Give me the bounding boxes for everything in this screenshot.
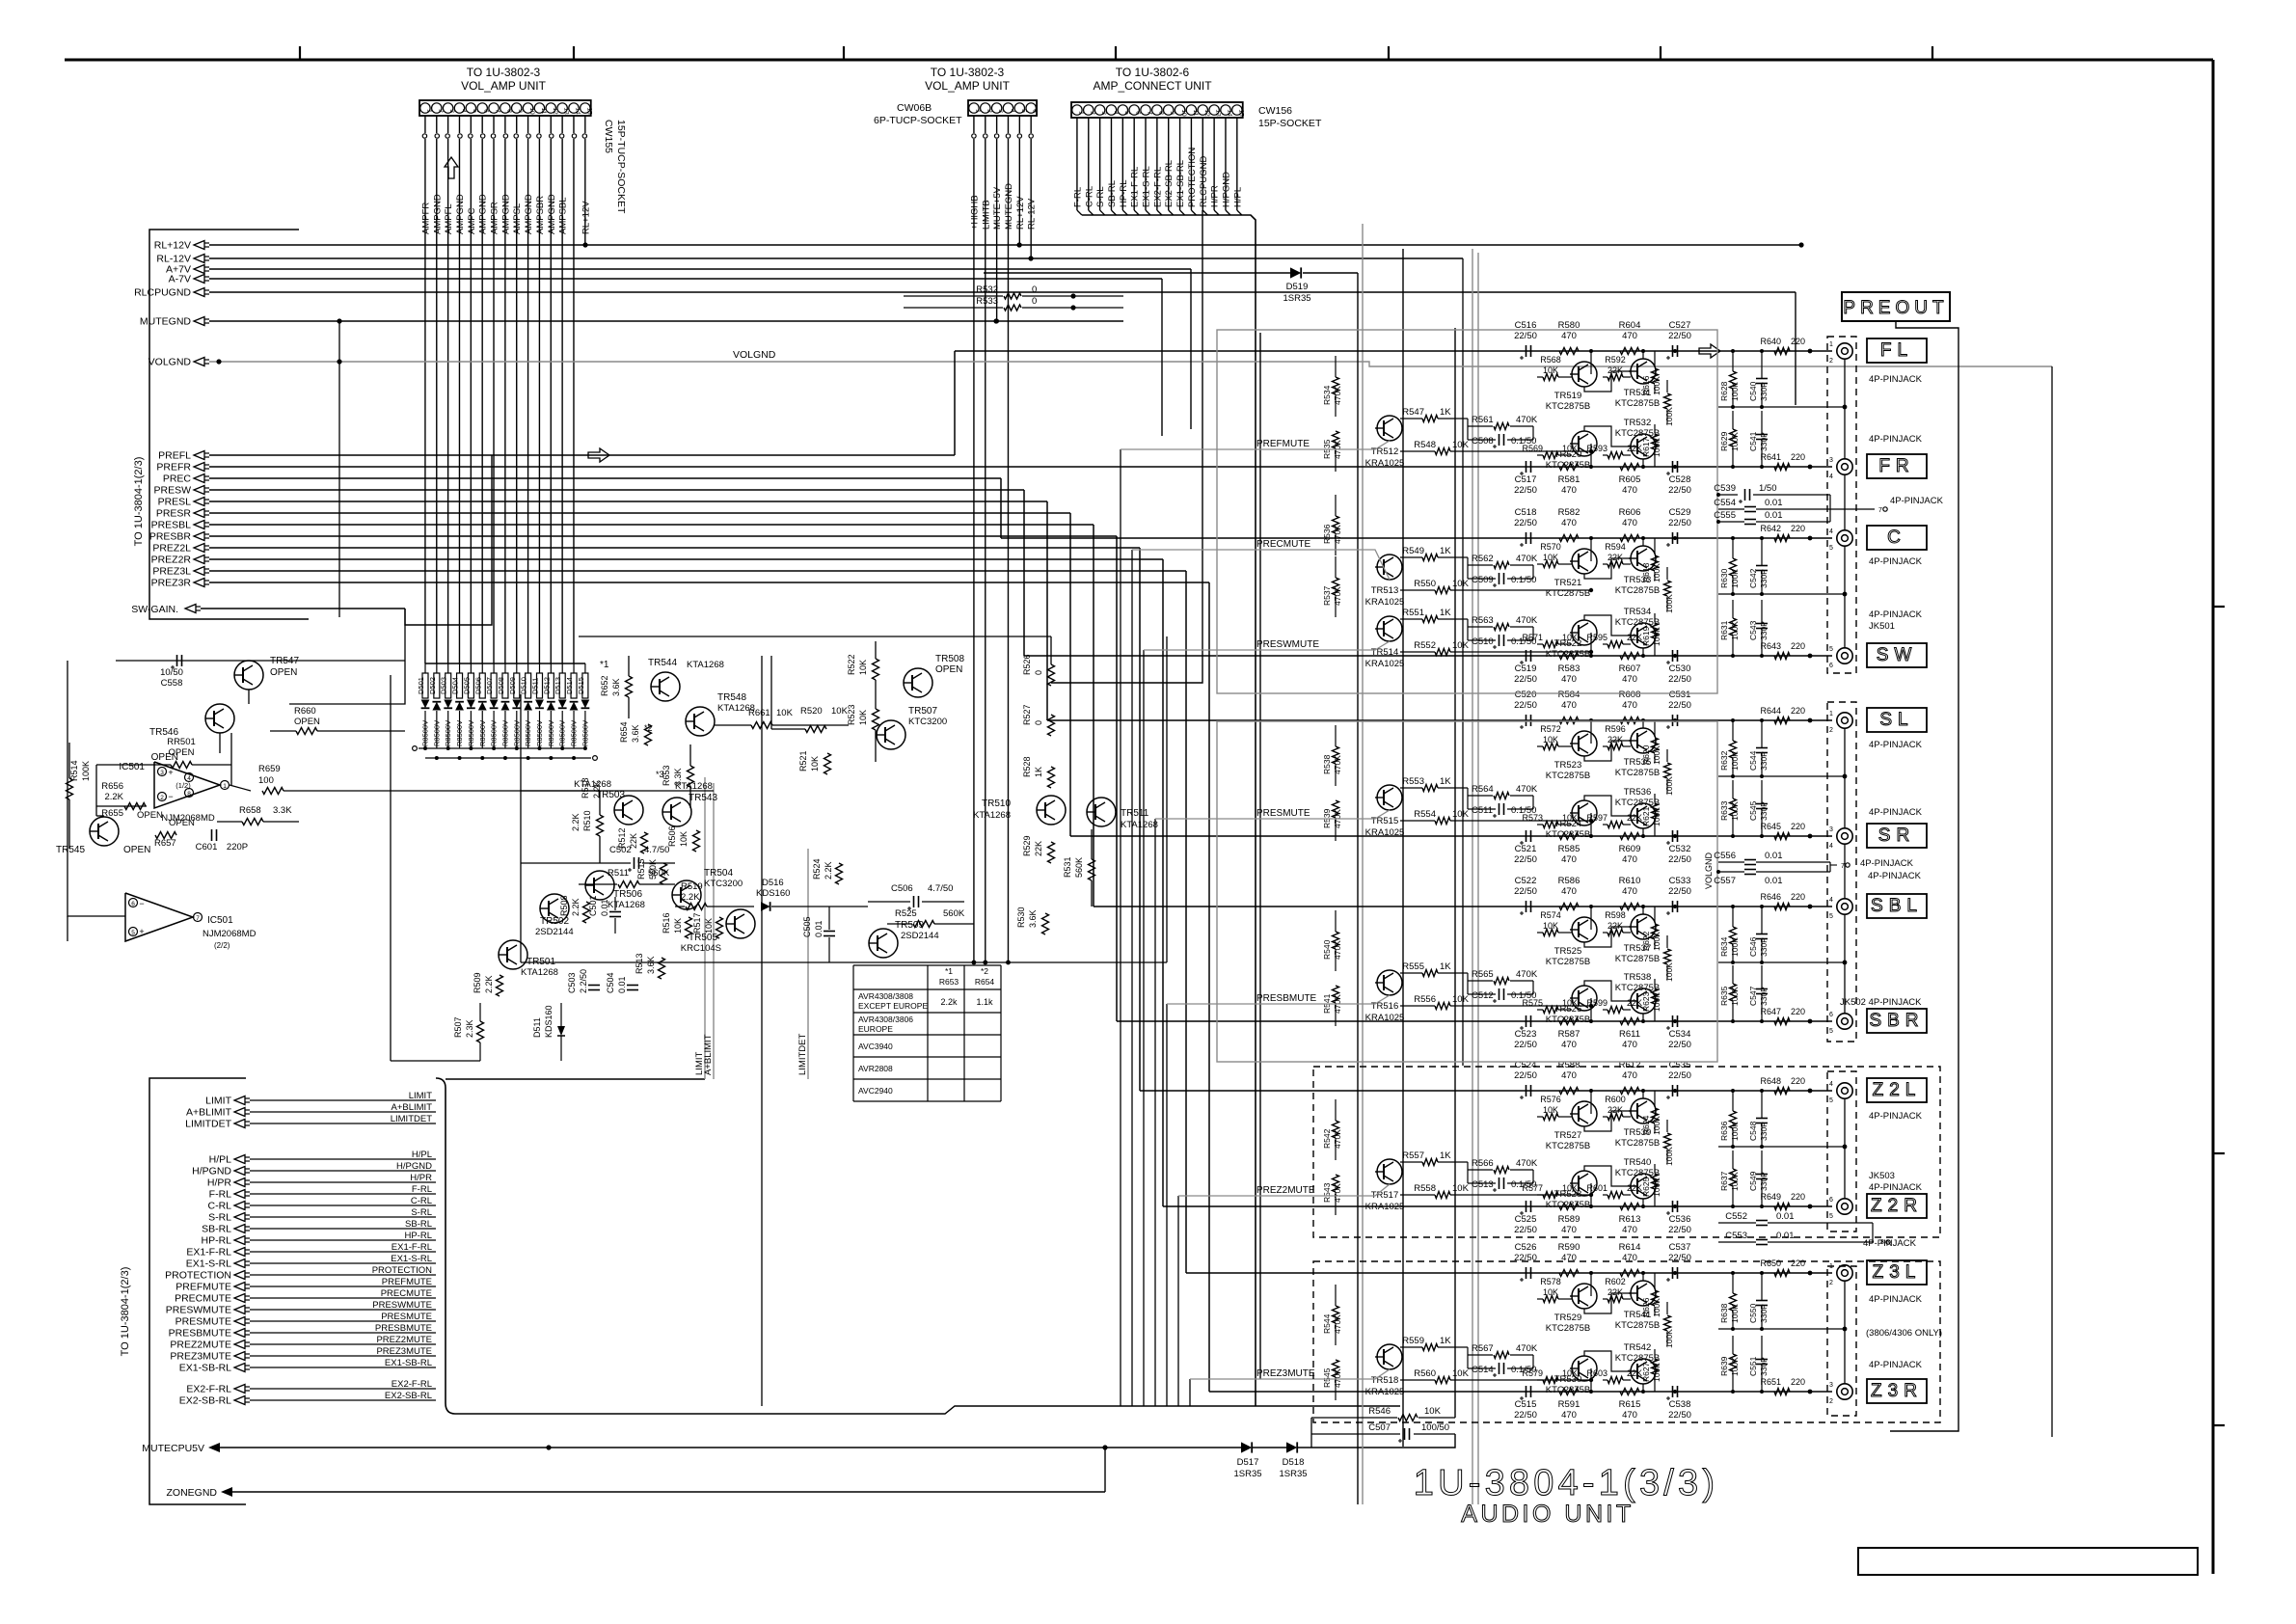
- svg-text:10K: 10K: [679, 831, 689, 847]
- resistor R592 22K: [1605, 355, 1626, 381]
- svg-text:EX2-SB-RL: EX2-SB-RL: [1164, 160, 1175, 207]
- svg-text:470: 470: [1622, 674, 1637, 685]
- svg-text:AVC2940: AVC2940: [858, 1086, 893, 1096]
- pin jack Z3L 4P-PINJACK: [1829, 1263, 1852, 1286]
- svg-text:100K: 100K: [1652, 438, 1661, 457]
- svg-text:PREZ2MUTE: PREZ2MUTE: [376, 1335, 432, 1345]
- svg-text:100K: 100K: [1652, 992, 1661, 1012]
- op-amp IC501 (2/2) NJM2068MD: [125, 893, 257, 950]
- svg-text:10K: 10K: [704, 918, 714, 934]
- capacitor C522 22/50: [1514, 876, 1537, 915]
- wire SL feed from PRE bundle: [1046, 501, 1048, 720]
- svg-text:PREZ3L: PREZ3L: [152, 566, 191, 578]
- svg-text:R561: R561: [1472, 415, 1494, 425]
- jack group bus JK502: [1844, 728, 1846, 828]
- svg-text:470: 470: [1561, 331, 1577, 341]
- channel label box Z3R: [1867, 1379, 1927, 1403]
- strip SBL lower rail: [1718, 961, 1845, 963]
- svg-text:R536: R536: [1322, 524, 1332, 544]
- strip C local wiring: [1590, 538, 1592, 561]
- svg-text:PREZ3MUTE: PREZ3MUTE: [1256, 1368, 1315, 1379]
- svg-text:22/50: 22/50: [1514, 1070, 1537, 1081]
- svg-text:KRA1025: KRA1025: [1365, 458, 1405, 469]
- svg-text:22/50: 22/50: [1668, 674, 1691, 685]
- svg-text:C521: C521: [1515, 844, 1537, 854]
- svg-text:C526: C526: [1515, 1242, 1537, 1253]
- svg-text:C557: C557: [1714, 876, 1736, 886]
- resistor R562 470K bias: [1468, 554, 1538, 579]
- svg-text:C538: C538: [1669, 1399, 1691, 1410]
- svg-text:SR: SR: [1878, 826, 1915, 846]
- strip Z3L local wiring: [1590, 1273, 1592, 1296]
- dashed box zone2 outer: [1313, 1067, 1940, 1237]
- svg-text:R537: R537: [1322, 585, 1332, 606]
- svg-text:R524: R524: [812, 858, 822, 880]
- svg-text:0.01: 0.01: [1776, 1231, 1795, 1241]
- resistor R560 10K: [1400, 1368, 1593, 1384]
- svg-text:AMP_CONNECT UNIT: AMP_CONNECT UNIT: [1093, 79, 1212, 93]
- svg-text:4P-PINJACK: 4P-PINJACK: [1863, 1238, 1917, 1249]
- svg-text:10K: 10K: [1424, 1406, 1442, 1417]
- svg-text:5: 5: [1829, 1097, 1833, 1104]
- svg-text:4: 4: [1829, 1081, 1833, 1088]
- wire SBR feed from PRE bundle: [1116, 536, 1118, 1021]
- svg-text:0.01: 0.01: [1765, 851, 1783, 861]
- svg-text:R532: R532: [976, 284, 998, 295]
- svg-text:C554: C554: [1714, 498, 1736, 508]
- resistor R640 220 output: [1760, 337, 1812, 355]
- capacitor C519 22/50: [1514, 650, 1537, 685]
- svg-text:R534: R534: [1322, 385, 1332, 405]
- capacitor C538 22/50: [1666, 1386, 1691, 1421]
- svg-text:470K: 470K: [1333, 586, 1342, 606]
- svg-text:R598: R598: [1605, 910, 1626, 920]
- resistor R587 470: [1558, 1018, 1580, 1051]
- svg-text:(2/2): (2/2): [214, 941, 230, 950]
- svg-text:H/PR: H/PR: [1210, 185, 1221, 207]
- resistor R584 470: [1558, 690, 1580, 724]
- transistor TR516 KRA1025 mute: [1365, 970, 1405, 1023]
- svg-text:H/PL: H/PL: [209, 1154, 232, 1166]
- resistor R590 470: [1558, 1242, 1580, 1277]
- svg-text:100K: 100K: [1730, 987, 1740, 1006]
- transistor TR525 KTC2875B: [1546, 917, 1597, 967]
- svg-text:TR523: TR523: [1554, 760, 1582, 771]
- strip SBR local wiring: [1590, 998, 1592, 1021]
- svg-text:C548: C548: [1748, 1121, 1758, 1141]
- resistor R509 2.2K: [473, 972, 503, 996]
- svg-text:2: 2: [1829, 1398, 1833, 1405]
- svg-text:22/50: 22/50: [1668, 518, 1691, 528]
- resistor R513 3.6K: [635, 953, 665, 979]
- svg-text:330P: 330P: [1759, 1304, 1769, 1323]
- svg-text:TR534: TR534: [1624, 607, 1652, 617]
- svg-text:KTC2875B: KTC2875B: [1546, 649, 1590, 660]
- svg-text:TR529: TR529: [1554, 1313, 1582, 1323]
- svg-text:R605: R605: [1619, 474, 1641, 485]
- capacitor C508 0.1/50: [1468, 426, 1536, 448]
- svg-text:470K: 470K: [1333, 386, 1342, 405]
- svg-text:4P-PINJACK: 4P-PINJACK: [1869, 1182, 1923, 1193]
- resistor R569 10K: [1522, 444, 1578, 459]
- capacitor C543 330P vertical: [1748, 600, 1769, 656]
- svg-text:AMPFR: AMPFR: [420, 203, 431, 234]
- capacitor C553 0.01: [1718, 1223, 1890, 1246]
- svg-text:R8500V: R8500V: [478, 720, 487, 746]
- svg-text:OPEN: OPEN: [270, 667, 297, 678]
- svg-text:220: 220: [1791, 337, 1805, 346]
- resistor R660 OPEN: [270, 706, 405, 735]
- svg-text:PREZ2R: PREZ2R: [151, 555, 192, 566]
- svg-text:8: 8: [187, 791, 191, 798]
- transistor TR546 OPEN: [149, 704, 234, 763]
- PREOUT label box: [1842, 292, 1950, 321]
- vertical rail x1307: [1259, 333, 1261, 1379]
- pin jack SL 4P-PINJACK: [1829, 711, 1852, 734]
- svg-text:R641: R641: [1760, 452, 1781, 462]
- svg-text:15: 15: [585, 107, 592, 115]
- transistor TR520 KTC2875B: [1546, 431, 1597, 471]
- PRE wire staircase bundle: [209, 455, 1209, 582]
- svg-text:A-7V: A-7V: [169, 274, 191, 285]
- svg-text:C544: C544: [1748, 750, 1758, 771]
- svg-text:330P: 330P: [1759, 569, 1769, 588]
- svg-text:KTC2875B: KTC2875B: [1615, 398, 1660, 409]
- PREOUT bracket line: [1890, 321, 1958, 1431]
- svg-text:D512: D512: [542, 677, 551, 694]
- svg-text:22K: 22K: [1034, 841, 1043, 856]
- svg-text:C: C: [1887, 528, 1906, 548]
- resistor R600 22K: [1605, 1095, 1626, 1121]
- svg-text:5: 5: [1829, 1028, 1833, 1035]
- svg-text:C513: C513: [1472, 1179, 1494, 1190]
- resistor R617 100K mid vertical: [1664, 1302, 1675, 1348]
- svg-text:KTC3200: KTC3200: [908, 717, 947, 727]
- svg-text:LIMITB: LIMITB: [981, 200, 991, 230]
- svg-text:AMPFL: AMPFL: [444, 203, 454, 234]
- svg-text:EX2-F-RL: EX2-F-RL: [1152, 167, 1163, 207]
- strip SL lower rail: [1718, 775, 1845, 777]
- svg-text:R596: R596: [1605, 724, 1626, 734]
- svg-text:R8500V: R8500V: [421, 720, 430, 746]
- svg-text:SW: SW: [1877, 645, 1918, 665]
- svg-text:C514: C514: [1472, 1365, 1494, 1375]
- mid-left wiring: [68, 661, 125, 916]
- svg-text:1K: 1K: [1440, 546, 1451, 556]
- svg-text:LIMIT: LIMIT: [409, 1091, 432, 1101]
- svg-text:R515: R515: [636, 858, 646, 880]
- resistor R575 10K: [1522, 998, 1578, 1014]
- resistor R637 100K vertical: [1719, 1150, 1740, 1206]
- svg-text:R618: R618: [1641, 562, 1651, 582]
- svg-text:C547: C547: [1748, 986, 1758, 1006]
- svg-text:C519: C519: [1515, 663, 1537, 674]
- svg-text:R611: R611: [1619, 1029, 1640, 1040]
- resistor R541 470K vertical: [1322, 986, 1342, 1026]
- left lower signal stubs with arrows: [165, 1091, 436, 1407]
- svg-text:C542: C542: [1748, 568, 1758, 588]
- transistor TR541 KTC2875B: [1615, 1281, 1660, 1331]
- svg-text:PROTECTION: PROTECTION: [372, 1265, 432, 1276]
- resistor R579 10K: [1522, 1368, 1578, 1384]
- svg-text:560K: 560K: [648, 868, 670, 879]
- svg-text:C539: C539: [1714, 483, 1736, 494]
- svg-text:KTC2875B: KTC2875B: [1615, 585, 1660, 596]
- svg-text:R8500V: R8500V: [432, 720, 441, 746]
- resistor R654 3.6K *2: [619, 721, 653, 745]
- resistor R610 470: [1619, 876, 1641, 910]
- svg-text:D514: D514: [565, 677, 574, 694]
- svg-text:560K: 560K: [943, 908, 965, 919]
- svg-text:2.2K: 2.2K: [571, 813, 581, 831]
- svg-text:R582: R582: [1558, 507, 1580, 518]
- diode D518 1SR35: [1279, 1442, 1307, 1479]
- resistor R549 1K: [1400, 546, 1468, 561]
- svg-text:C510: C510: [1472, 636, 1494, 647]
- channel label box C: [1867, 526, 1927, 550]
- svg-text:PREFR: PREFR: [156, 462, 191, 474]
- svg-text:C-RL: C-RL: [411, 1196, 432, 1206]
- LIMITDET vertical wire: [807, 849, 809, 1079]
- strip Z2L lower rail: [1718, 1146, 1845, 1148]
- svg-text:1K: 1K: [1440, 407, 1451, 418]
- svg-text:1/50: 1/50: [1759, 483, 1777, 494]
- svg-text:4P-PINJACK: 4P-PINJACK: [1869, 556, 1923, 567]
- capacitor C550 330P vertical: [1748, 1273, 1769, 1329]
- svg-text:PRESL: PRESL: [158, 497, 192, 508]
- capacitor C537 22/50: [1666, 1242, 1691, 1282]
- svg-text:10K: 10K: [776, 708, 794, 718]
- svg-text:C532: C532: [1669, 844, 1691, 854]
- svg-text:C558: C558: [161, 678, 183, 689]
- svg-text:KTA1268: KTA1268: [973, 810, 1011, 821]
- svg-text:S-RL: S-RL: [411, 1207, 432, 1218]
- svg-text:R572: R572: [1540, 724, 1561, 734]
- svg-text:TR525: TR525: [1554, 946, 1582, 957]
- svg-text:100K: 100K: [1730, 621, 1740, 640]
- capacitor C530 22/50: [1666, 650, 1691, 685]
- svg-text:3: 3: [1829, 1382, 1833, 1389]
- svg-text:5: 5: [131, 930, 135, 936]
- svg-text:22K: 22K: [1607, 1287, 1623, 1297]
- svg-text:R507: R507: [453, 1016, 463, 1038]
- svg-text:330P: 330P: [1759, 1172, 1769, 1191]
- capacitor C512 0.1/50: [1468, 981, 1536, 1003]
- svg-text:C555: C555: [1714, 510, 1736, 521]
- svg-text:D519: D519: [1286, 282, 1309, 292]
- svg-text:R620: R620: [1641, 744, 1651, 765]
- resistor R615 470: [1619, 1389, 1641, 1421]
- svg-text:220: 220: [1791, 706, 1805, 716]
- svg-text:470: 470: [1561, 1225, 1577, 1235]
- capacitor C549 330P vertical: [1748, 1150, 1769, 1206]
- svg-text:TR540: TR540: [1624, 1157, 1652, 1168]
- transistor TR548 KTA1268: [686, 692, 755, 736]
- svg-text:R654: R654: [619, 721, 629, 743]
- svg-text:0.01: 0.01: [1765, 510, 1783, 521]
- svg-text:10K: 10K: [1452, 640, 1470, 651]
- svg-text:R638: R638: [1719, 1303, 1729, 1323]
- svg-text:1K: 1K: [1440, 608, 1451, 618]
- svg-text:470K: 470K: [1516, 554, 1538, 564]
- diode D517 1SR35: [1233, 1442, 1261, 1479]
- channel label box SR: [1867, 824, 1927, 848]
- transistor TR543 KTA1268: [662, 781, 717, 826]
- svg-text:AMPGND: AMPGND: [524, 194, 534, 234]
- svg-text:R631: R631: [1719, 620, 1729, 640]
- svg-text:10K: 10K: [1543, 1105, 1558, 1115]
- capacitor C535 22/50: [1666, 1060, 1691, 1099]
- resistor R518 2.2K: [581, 777, 602, 798]
- capacitor C531 22/50: [1666, 690, 1691, 729]
- svg-text:EX1-S-RL: EX1-S-RL: [391, 1254, 432, 1264]
- svg-text:LIMITDET: LIMITDET: [185, 1119, 231, 1130]
- PREZ2MUTE mute control wire: [1177, 1196, 1179, 1406]
- svg-text:100K: 100K: [1652, 1177, 1661, 1197]
- svg-text:R591: R591: [1558, 1399, 1580, 1410]
- resistor R645 220 output: [1760, 822, 1812, 840]
- RLCPUGND drop wire: [1051, 210, 1202, 683]
- svg-text:1K: 1K: [1034, 767, 1043, 777]
- flow arrow FL line: [1699, 344, 1720, 358]
- strip SL local wiring: [1590, 720, 1592, 744]
- svg-text:4P-PINJACK: 4P-PINJACK: [1869, 374, 1923, 385]
- resistor R609 470: [1619, 833, 1641, 866]
- dashed box zone2 pin jacks: [1827, 1071, 1856, 1232]
- svg-text:10K: 10K: [1543, 1287, 1558, 1297]
- svg-text:AMPSBL: AMPSBL: [558, 197, 569, 234]
- resistor R583 470: [1558, 653, 1580, 686]
- svg-text:R533: R533: [976, 296, 998, 307]
- svg-text:PRESMUTE: PRESMUTE: [381, 1312, 432, 1322]
- connector CW06B 6P-TUCP-SOCKET: [968, 100, 1039, 116]
- svg-text:C541: C541: [1748, 431, 1758, 451]
- svg-text:TR532: TR532: [1624, 418, 1652, 428]
- capacitor C521 22/50: [1514, 830, 1537, 865]
- resistor R515 560K: [636, 858, 667, 884]
- resistor R508 2.2K: [559, 895, 590, 923]
- resistor R554 10K: [1400, 809, 1593, 825]
- resistor R512 22K: [617, 827, 648, 853]
- svg-text:100K: 100K: [1730, 1304, 1740, 1323]
- svg-text:R531: R531: [1063, 856, 1072, 878]
- svg-text:4P-PINJACK: 4P-PINJACK: [1869, 1111, 1923, 1122]
- svg-text:TR513: TR513: [1371, 585, 1399, 596]
- svg-text:22K: 22K: [1627, 998, 1642, 1008]
- resistor R588 470: [1558, 1060, 1580, 1095]
- transistor TR517 KRA1025 mute: [1365, 1159, 1405, 1212]
- capacitor C524 22/50: [1514, 1060, 1537, 1099]
- wire Z3L signal line: [1528, 1272, 1832, 1274]
- svg-text:S-RL: S-RL: [208, 1212, 231, 1224]
- svg-text:D510: D510: [520, 677, 528, 694]
- svg-text:10/50: 10/50: [160, 667, 183, 678]
- svg-text:100K: 100K: [1730, 382, 1740, 401]
- transistor TR531 KTC2875B: [1615, 359, 1660, 409]
- svg-text:22K: 22K: [1607, 365, 1623, 375]
- svg-text:KDS160: KDS160: [756, 888, 790, 899]
- LIMIT vertical wire: [704, 777, 706, 1079]
- svg-text:SW-GAIN.: SW-GAIN.: [131, 604, 178, 615]
- svg-text:R613: R613: [1619, 1214, 1641, 1225]
- svg-text:470K: 470K: [1333, 940, 1342, 960]
- svg-text:22/50: 22/50: [1668, 331, 1691, 341]
- svg-text:100K: 100K: [1730, 432, 1740, 451]
- svg-text:R583: R583: [1558, 663, 1580, 674]
- svg-text:2.3K: 2.3K: [465, 1019, 474, 1038]
- svg-text:C531: C531: [1669, 690, 1691, 700]
- resistor R644 220 output: [1760, 706, 1812, 724]
- svg-text:R559: R559: [1402, 1336, 1424, 1346]
- svg-text:R547: R547: [1402, 407, 1424, 418]
- svg-text:−: −: [168, 792, 173, 801]
- capacitor C520 22/50: [1514, 690, 1537, 729]
- svg-text:7: 7: [1878, 507, 1882, 514]
- svg-text:100K: 100K: [81, 761, 91, 781]
- transistor TR510 KTA1268: [973, 796, 1066, 825]
- svg-text:D516: D516: [762, 878, 784, 888]
- svg-text:AMPSR: AMPSR: [490, 202, 500, 234]
- svg-text:4: 4: [1829, 474, 1833, 480]
- svg-text:4.7/50: 4.7/50: [928, 883, 953, 894]
- transistor TR524 KTC2875B: [1546, 800, 1597, 840]
- svg-text:TR543: TR543: [689, 793, 717, 803]
- connector CW06B designation: [874, 102, 962, 126]
- svg-text:330P: 330P: [1759, 382, 1769, 401]
- strip FL lower rail: [1718, 406, 1845, 408]
- svg-text:PRESWMUTE: PRESWMUTE: [1256, 639, 1319, 650]
- svg-text:4P-PINJACK: 4P-PINJACK: [1869, 609, 1923, 620]
- strip Z3R local wiring: [1590, 1368, 1592, 1392]
- svg-text:R8500V: R8500V: [524, 720, 532, 746]
- svg-text:D518: D518: [1283, 1457, 1305, 1468]
- pin jack Z2L 4P-PINJACK: [1829, 1081, 1852, 1104]
- svg-text:2SD2144: 2SD2144: [535, 927, 574, 937]
- svg-text:4: 4: [1829, 897, 1833, 904]
- svg-text:470: 470: [1622, 485, 1637, 496]
- resistor R630 100K vertical: [1719, 538, 1740, 594]
- transistor TR506 KTA1268: [585, 871, 645, 910]
- svg-text:KRA1025: KRA1025: [1365, 659, 1405, 669]
- svg-text:KTC2875B: KTC2875B: [1615, 1320, 1660, 1331]
- svg-text:C551: C551: [1748, 1356, 1758, 1376]
- resistor R572 10K: [1540, 724, 1561, 750]
- capacitor C558 10/50: [116, 655, 405, 689]
- resistor R618 100K vertical: [1641, 538, 1661, 582]
- svg-text:10K: 10K: [810, 756, 820, 771]
- svg-text:LIMIT: LIMIT: [205, 1096, 231, 1107]
- svg-text:R626: R626: [1641, 1297, 1651, 1317]
- svg-text:KRC104S: KRC104S: [681, 943, 721, 954]
- title block box: [1858, 1548, 2198, 1575]
- svg-text:R633: R633: [1719, 800, 1729, 821]
- resistor R591 470: [1558, 1389, 1580, 1421]
- border frame right line: [2212, 60, 2215, 1574]
- svg-text:R610: R610: [1619, 876, 1641, 886]
- svg-text:SB-RL: SB-RL: [202, 1224, 231, 1235]
- svg-text:SL: SL: [1879, 710, 1913, 730]
- svg-text:D501: D501: [417, 677, 425, 694]
- svg-text:10K: 10K: [1452, 1183, 1470, 1194]
- transistor TR519 KTC2875B: [1546, 362, 1597, 412]
- svg-text:470K: 470K: [1333, 1129, 1342, 1149]
- svg-text:D511: D511: [532, 1017, 542, 1038]
- svg-text:R8500V: R8500V: [558, 720, 567, 746]
- resistor R566 470K bias: [1468, 1158, 1538, 1183]
- svg-text:TR538: TR538: [1624, 972, 1652, 983]
- svg-text:C550: C550: [1748, 1303, 1758, 1323]
- svg-text:220: 220: [1791, 822, 1805, 831]
